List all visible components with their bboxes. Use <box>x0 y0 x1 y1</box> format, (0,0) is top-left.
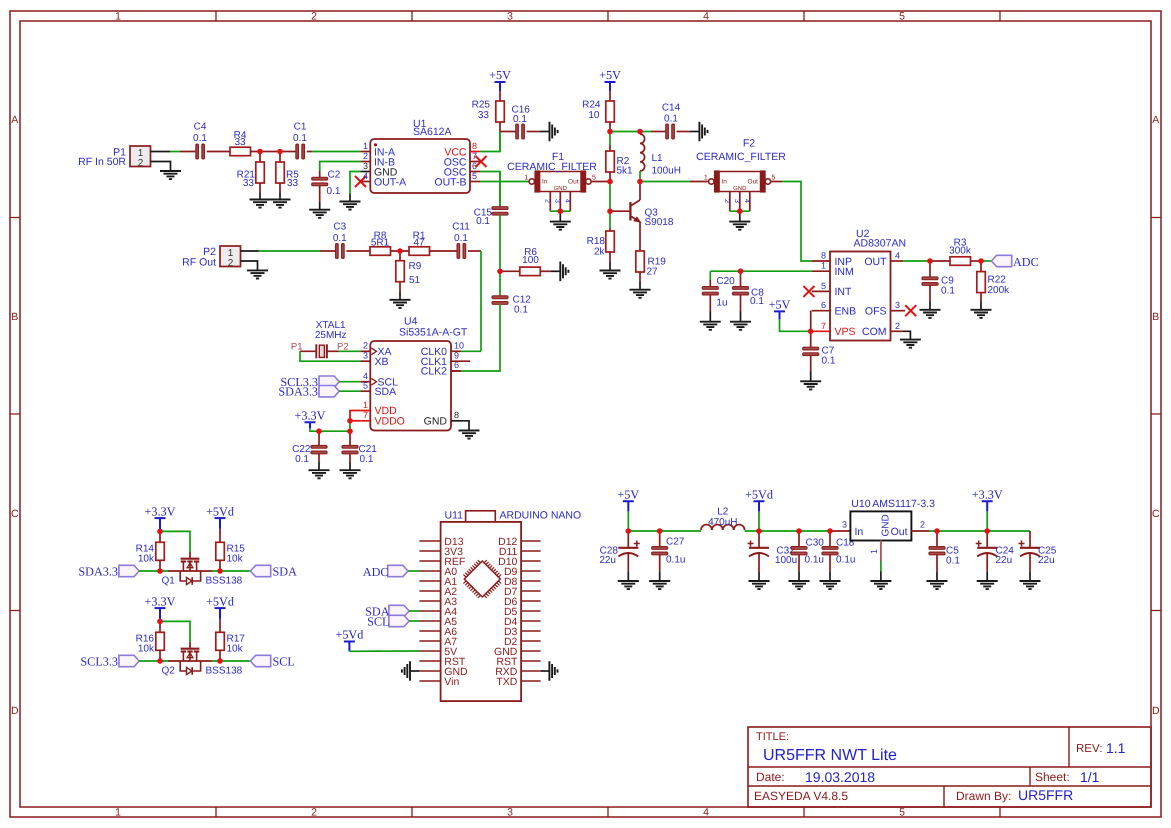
label C9 <box>941 276 954 287</box>
wire R19-gnd <box>639 272 641 290</box>
net flag SCL (U11) <box>389 615 409 626</box>
svg-text:0.1u: 0.1u <box>666 555 685 566</box>
ground C14 (rotated) <box>699 122 707 142</box>
wire C7 lead <box>810 331 812 348</box>
label U1 <box>413 118 427 130</box>
svg-text:0.1: 0.1 <box>750 296 764 307</box>
title label REV: <box>1076 743 1102 755</box>
resistor R14 <box>156 542 165 560</box>
U2 pin name COM <box>862 326 887 338</box>
wire R24-node <box>609 122 611 132</box>
capacitor C3 <box>336 244 345 259</box>
wire node-R18 <box>609 211 611 231</box>
wire R25-C16 node <box>500 122 517 132</box>
power flag +5V (R24) <box>599 68 621 91</box>
filter F1 input terminal <box>529 179 534 184</box>
U1 pin name IN-A <box>374 146 395 158</box>
junction R15 bottom <box>217 568 223 574</box>
U11 pin name D13 (left) <box>444 536 463 548</box>
ground R18 <box>600 271 621 279</box>
label C20 <box>716 276 735 287</box>
svg-text:1: 1 <box>115 11 121 23</box>
wire +5Vd to 5V pin <box>349 642 419 652</box>
svg-text:SDA: SDA <box>273 564 298 578</box>
svg-text:+5Vd: +5Vd <box>745 487 773 501</box>
power flag +3.3V (Q2) <box>145 594 176 621</box>
wire C28-gnd <box>627 553 629 581</box>
svg-text:300k: 300k <box>949 245 972 256</box>
U11 pin name RST (left) <box>444 656 466 668</box>
svg-text:In: In <box>542 179 548 186</box>
label C2 value 0.1 <box>327 186 341 197</box>
wire SDA3.3 to Q1 <box>139 570 168 572</box>
F2 pin number 3 <box>733 199 740 203</box>
net label SCL3.3 <box>80 654 118 668</box>
svg-text:AD8307AN: AD8307AN <box>854 237 907 249</box>
U11 pin name D6 (right) <box>504 596 518 608</box>
wire +5V-R25 <box>499 91 501 101</box>
capacitor C2 <box>312 177 328 185</box>
IC U1 SA612A body <box>370 139 470 193</box>
label R9 <box>409 261 422 272</box>
svg-text:+5Vd: +5Vd <box>206 504 234 518</box>
label C20 value 1u <box>716 298 727 309</box>
junction L1 top <box>637 129 643 135</box>
net label SDA3.3 (U4) <box>278 385 318 399</box>
label U2 AD8307AN <box>854 237 907 249</box>
svg-text:R9: R9 <box>409 261 422 272</box>
svg-text:22u: 22u <box>996 555 1013 566</box>
U11 pin name GND (left) <box>444 666 468 678</box>
label R6 value 100 <box>522 255 539 266</box>
transistor Q3 S9018 <box>610 182 640 252</box>
svg-text:33: 33 <box>243 178 255 189</box>
ground C21 <box>340 470 361 478</box>
label R19 <box>648 257 667 268</box>
label C22 value 0.1 <box>295 454 309 465</box>
svg-text:2: 2 <box>363 151 368 161</box>
label C7 value 0.1 <box>822 356 836 367</box>
capacitor C22 <box>311 446 327 454</box>
filter F1 right bar <box>581 171 586 192</box>
svg-text:Sheet:: Sheet: <box>1035 770 1070 784</box>
wire +5V drop <box>627 511 629 531</box>
title block row line 1 <box>748 766 1151 768</box>
ground C7 <box>800 381 821 389</box>
wire U1 pin5 OUT-B to F1 <box>470 181 529 183</box>
wire +3.3V rail (U4) <box>310 428 350 431</box>
svg-text:7: 7 <box>363 410 368 420</box>
svg-text:+5V: +5V <box>489 68 511 82</box>
junction R9 node <box>397 248 403 254</box>
svg-text:C14: C14 <box>662 103 681 114</box>
resistor R15 <box>216 542 225 560</box>
svg-text:+5V: +5V <box>599 68 621 82</box>
junction C30 node <box>796 528 802 534</box>
svg-text:Out: Out <box>748 179 759 186</box>
U11 pin name RST (right) <box>496 656 518 668</box>
inductor L2 <box>701 525 745 530</box>
label C18 <box>836 538 855 549</box>
label L2 <box>717 506 729 517</box>
svg-text:COM: COM <box>862 326 887 338</box>
svg-text:2: 2 <box>228 258 234 269</box>
svg-text:5: 5 <box>472 171 477 181</box>
IC U11 Arduino Nano body <box>441 522 521 701</box>
wire R4-C1 <box>251 151 297 153</box>
label U11 <box>445 510 464 522</box>
label C16 value 0.1 <box>513 114 527 125</box>
svg-text:SA612A: SA612A <box>413 126 452 138</box>
U11 pin name A1 (left) <box>444 576 457 588</box>
label C8 value 0.1 <box>750 296 764 307</box>
wire U4 VDD <box>350 411 370 421</box>
label R3 <box>954 238 967 249</box>
label C32 <box>776 546 795 557</box>
wire P1 pin2 <box>151 162 171 172</box>
label U2 <box>856 228 870 240</box>
svg-text:UR5FFR: UR5FFR <box>1018 787 1073 803</box>
label C5 <box>946 546 959 557</box>
no-connect X on U2 pin 5 <box>803 286 814 297</box>
power flag +3.3V (Q1) <box>145 504 176 531</box>
wire C5 lead <box>936 531 938 548</box>
label R16 value 10k <box>138 644 155 655</box>
svg-text:0.1: 0.1 <box>664 114 678 125</box>
U2 pin name OUT <box>864 256 887 268</box>
junction OUT/C9 <box>927 258 933 264</box>
svg-text:Date:: Date: <box>756 770 785 784</box>
label C30 <box>806 538 825 549</box>
wire XTAL-XB <box>300 351 370 361</box>
svg-text:2: 2 <box>138 158 144 169</box>
U11 pin name D10 (right) <box>498 556 517 568</box>
svg-text:F2: F2 <box>743 138 755 150</box>
label C27 value 0.1u <box>666 555 685 566</box>
label RF Out <box>182 257 216 269</box>
svg-text:47: 47 <box>413 237 425 248</box>
wire U1 pin7 stub <box>470 161 480 163</box>
wire node-C12 <box>499 271 501 297</box>
wire F1 gnd bus <box>550 210 570 212</box>
U11 pin name D8 (right) <box>504 576 518 588</box>
U4 pin name XB <box>375 356 389 368</box>
junction R17 bottom <box>217 658 223 664</box>
svg-text:0.1: 0.1 <box>327 186 341 197</box>
svg-text:+5Vd: +5Vd <box>335 628 363 642</box>
F2 ground stubs <box>730 192 750 212</box>
ground U2 COM <box>900 340 921 348</box>
svg-text:0.1: 0.1 <box>193 133 207 144</box>
net flag SDA (U11) <box>389 605 409 616</box>
title value 1.1 <box>1106 740 1126 756</box>
svg-text:1/1: 1/1 <box>1080 769 1100 785</box>
wire INM net <box>710 270 830 272</box>
svg-text:22u: 22u <box>1038 555 1055 566</box>
power flag +5Vd (rail) <box>745 487 773 511</box>
wire C3-R8 <box>346 250 370 252</box>
svg-text:GND: GND <box>424 416 448 428</box>
svg-text:SDA3.3: SDA3.3 <box>278 385 318 399</box>
svg-text:C: C <box>11 508 19 520</box>
wire R9-gnd <box>399 282 401 300</box>
wire C8 lead <box>740 271 742 288</box>
junction C27 node <box>657 528 663 534</box>
wire C30 lead <box>798 531 800 548</box>
net flag SCL3.3 <box>119 655 139 666</box>
junction C5 node <box>934 528 940 534</box>
U11 pin name D12 (right) <box>498 536 517 548</box>
label C12 <box>513 295 532 306</box>
label C18 value 0.1u <box>836 555 855 566</box>
wire C5-gnd <box>936 555 938 582</box>
U1 pin number 4 <box>363 171 368 181</box>
wire R16-node <box>159 650 161 661</box>
svg-text:D: D <box>1152 705 1160 717</box>
label R21 <box>237 170 256 181</box>
svg-text:5: 5 <box>592 175 596 182</box>
wire R3-node <box>971 260 982 262</box>
ground C32 <box>749 581 770 589</box>
label R22 value 200k <box>988 285 1011 296</box>
svg-text:ARDUINO NANO: ARDUINO NANO <box>500 510 582 522</box>
ground C18 <box>820 581 841 589</box>
svg-text:SCL3.3: SCL3.3 <box>80 654 118 668</box>
net flag ADC (U11) <box>388 565 408 576</box>
U11 pin name GND (right) <box>494 646 518 658</box>
svg-text:GND: GND <box>554 185 568 192</box>
label C11 value 0.1 <box>454 233 468 244</box>
ground R9 <box>390 300 411 308</box>
U11 pin name 5V (left) <box>444 646 457 658</box>
U10 pin number 3 <box>842 520 847 530</box>
wire U4 CLK1 stub <box>451 360 470 362</box>
wire XTAL-XA <box>339 350 371 352</box>
wire Q1 to SDA <box>212 570 250 572</box>
wire C25 lead <box>1029 531 1031 547</box>
wire P2 pin1 <box>241 250 337 252</box>
wire R17 lead <box>219 619 221 632</box>
svg-text:0.1u: 0.1u <box>805 555 824 566</box>
wire R22 lead <box>980 261 982 272</box>
net label SDA3.3 <box>78 564 118 578</box>
filter F1 left bar <box>535 171 540 192</box>
power flag +5Vd (U11) <box>335 628 363 642</box>
U1 pin1 indicator dot <box>374 143 377 146</box>
svg-text:+3.3V: +3.3V <box>972 487 1003 501</box>
svg-text:27: 27 <box>647 267 659 278</box>
svg-text:+3.3V: +3.3V <box>295 409 326 423</box>
wire U2 pin3 OFS stub <box>891 310 906 312</box>
svg-text:D: D <box>11 705 19 717</box>
label Q1 BSS138 <box>206 576 243 587</box>
svg-text:+5V: +5V <box>769 298 791 312</box>
svg-text:C11: C11 <box>452 222 470 233</box>
no-connect X on U1 pin 7 <box>476 156 487 167</box>
U11 chip diamond icon <box>463 560 501 598</box>
label R2 value 5k1 <box>617 166 634 177</box>
label Q1 <box>162 576 176 587</box>
junction node 181 left <box>607 179 613 185</box>
wire C14-gnd <box>677 131 700 133</box>
label C24 value 22u <box>996 555 1013 566</box>
label R25 <box>472 100 491 111</box>
label R8 <box>374 231 387 242</box>
label F2 <box>743 138 755 150</box>
svg-text:5: 5 <box>772 175 776 182</box>
svg-text:8: 8 <box>454 410 459 420</box>
svg-text:2: 2 <box>895 321 900 331</box>
wire OUT-R3 <box>930 260 950 262</box>
label C1 <box>294 122 307 133</box>
power flag +3.3V (rail) <box>972 487 1003 511</box>
ground F2 <box>729 222 750 230</box>
label C3 <box>333 222 346 233</box>
label R15 <box>227 544 246 555</box>
net label SDA (U11) <box>365 604 390 618</box>
svg-text:33: 33 <box>234 137 246 148</box>
label C7 <box>822 346 835 357</box>
U11 pin name D7 (right) <box>504 586 518 598</box>
junction R3/R22 <box>978 258 984 264</box>
ground C30 <box>789 581 810 589</box>
svg-text:A: A <box>1152 114 1159 126</box>
U4 pin name XA <box>378 346 392 358</box>
label XTAL1 value 25MHz <box>315 330 347 341</box>
F1 pin number 5 <box>592 175 596 182</box>
svg-text:R18: R18 <box>587 236 606 247</box>
XTAL1 pin label P2 <box>337 342 349 353</box>
junction C22 node <box>316 428 322 434</box>
svg-text:4: 4 <box>363 171 368 181</box>
net label SCL <box>273 654 295 668</box>
svg-text:0.1: 0.1 <box>514 305 528 316</box>
svg-text:3: 3 <box>842 520 847 530</box>
ground R5 <box>270 200 291 208</box>
U10 pin name In <box>855 526 864 538</box>
label R24 value 10 <box>588 110 600 121</box>
label R5 <box>286 170 299 181</box>
F2 text GND <box>733 185 747 192</box>
wire C20 lead <box>709 271 711 288</box>
svg-text:ENB: ENB <box>835 306 857 318</box>
label ARDUINO NANO <box>500 510 582 522</box>
U10 pin name GND (rotated) <box>881 514 892 536</box>
ground R21 <box>250 200 271 208</box>
U10 pin number 1 (rotated) <box>869 549 879 554</box>
wire U10 Out <box>911 530 1030 532</box>
U1 pin number 3 <box>363 161 368 171</box>
wire U1 pin4 stub <box>360 181 370 183</box>
connector P2 <box>220 246 241 269</box>
svg-text:U10: U10 <box>851 498 870 510</box>
no-connect X on U1 pin 4 <box>355 176 366 187</box>
capacitor C4 <box>196 144 205 159</box>
wire C27-gnd <box>659 555 661 582</box>
junction R16 bottom <box>157 658 163 664</box>
resistor R8 <box>370 247 391 256</box>
svg-text:100: 100 <box>522 255 539 266</box>
resistor R19 <box>636 251 645 272</box>
title block Sheet divider <box>1029 767 1031 786</box>
wire +5V-R24 <box>609 91 611 101</box>
wire L1-collector node <box>639 171 641 182</box>
svg-text:ADC: ADC <box>1013 255 1039 269</box>
label C25 <box>1038 546 1057 557</box>
resistor R25 <box>496 101 505 122</box>
net flag SDA <box>250 565 270 576</box>
U11 pin name A7 (left) <box>444 636 457 648</box>
power flag +5Vd (Q1) <box>206 504 234 529</box>
wire U1 pin2 to C2 <box>320 162 371 179</box>
junction node R4/R21 <box>257 149 263 155</box>
F2 pin number 4 <box>743 199 750 203</box>
ground C8 <box>730 322 751 330</box>
svg-text:4: 4 <box>895 251 900 261</box>
F2 pin number 5 <box>772 175 776 182</box>
svg-text:L1: L1 <box>652 153 664 164</box>
wire C22 lead <box>318 431 320 447</box>
wire R8-R1 <box>391 250 410 252</box>
wire R9 lead <box>399 251 401 261</box>
svg-text:0.1: 0.1 <box>333 233 347 244</box>
capacitor C9 <box>922 277 938 285</box>
label F1 <box>552 151 564 163</box>
resistor R16 <box>156 632 165 650</box>
resistor R4 <box>230 147 251 156</box>
svg-text:3: 3 <box>507 807 513 819</box>
U4 XA input arrow <box>371 348 376 355</box>
title label Drawn By: <box>956 789 1011 803</box>
label F2 CERAMIC_FILTER <box>696 151 786 163</box>
svg-text:0.1: 0.1 <box>454 233 468 244</box>
svg-text:470uH: 470uH <box>708 517 737 528</box>
svg-text:5: 5 <box>899 807 905 819</box>
svg-text:100u: 100u <box>775 555 797 566</box>
ground C28 <box>618 581 639 589</box>
junction VDDO node <box>347 418 353 424</box>
junction C18 node <box>827 528 833 534</box>
svg-text:+3.3V: +3.3V <box>145 594 176 608</box>
U1 pin number 8 <box>472 141 477 151</box>
U4 pin name CLK2 <box>421 366 447 378</box>
svg-text:100uH: 100uH <box>652 166 681 177</box>
wire R6-gnd <box>540 270 560 272</box>
svg-text:Q2: Q2 <box>162 666 176 677</box>
svg-text:+3.3V: +3.3V <box>145 504 176 518</box>
svg-text:RF In 50R: RF In 50R <box>78 156 126 168</box>
wire gate feed Q1 <box>160 531 190 558</box>
svg-text:In: In <box>855 526 864 538</box>
resistor R24 <box>606 101 615 122</box>
capacitor C14 <box>666 124 675 139</box>
resistor R5 <box>276 152 285 200</box>
label R4 value 33 <box>234 137 246 148</box>
svg-text:R24: R24 <box>582 100 601 111</box>
svg-text:EASYEDA V4.8.5: EASYEDA V4.8.5 <box>754 789 848 803</box>
label C27 <box>666 537 685 548</box>
junction R6 node <box>497 269 503 275</box>
wire gate feed Q2 <box>160 621 190 648</box>
U4 pin number 8 <box>454 410 459 420</box>
svg-text:S9018: S9018 <box>645 217 674 228</box>
net label ADC (U11) <box>363 565 389 579</box>
svg-text:3: 3 <box>554 199 561 203</box>
U2 pin number 8 <box>821 251 826 261</box>
wire U1 pin8 VCC <box>470 132 500 152</box>
power flag +5Vd (Q2) <box>206 594 234 619</box>
junction R14 top <box>157 529 163 535</box>
